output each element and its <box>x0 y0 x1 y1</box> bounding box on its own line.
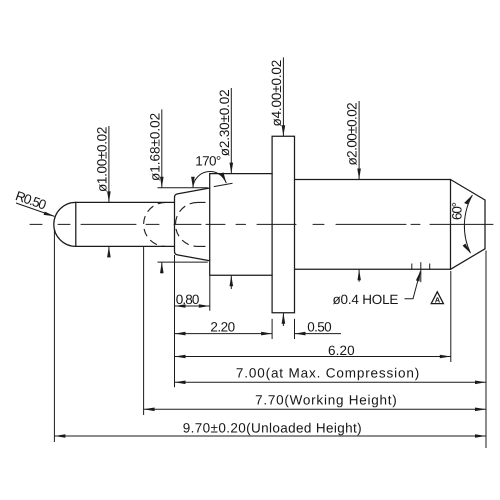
taper angle extension line <box>214 183 233 186</box>
chamfer top <box>451 180 486 201</box>
svg-text:0.50: 0.50 <box>307 320 332 335</box>
arrowhead 7.70 left <box>144 408 155 412</box>
extension line mouth face <box>174 255 176 387</box>
arrowhead ø2.30 down <box>230 163 234 174</box>
arrowhead 60 bottom <box>463 244 471 254</box>
svg-text:ø2.00±0.02: ø2.00±0.02 <box>345 102 360 166</box>
arrowhead 9.70 right <box>475 434 486 438</box>
hole leader <box>405 272 421 299</box>
arrowhead ø1.00 up <box>107 246 111 257</box>
body top <box>295 179 451 181</box>
dim leader line ø1.00 <box>108 126 110 202</box>
hole tick right <box>429 264 431 270</box>
arrowhead 60 top <box>464 195 473 205</box>
dim arrow tail ø1.68 bottom <box>161 262 163 274</box>
dim leader line ø1.68 <box>161 109 163 187</box>
svg-text:A: A <box>435 296 441 305</box>
arrowhead 0.50 left-pointing <box>295 332 306 336</box>
170 degree arc <box>193 172 226 188</box>
revision triangle <box>431 292 443 304</box>
arrowhead hole leader <box>416 271 421 282</box>
dim line 0.50 <box>295 333 342 335</box>
arrowhead 9.70 left <box>54 434 65 438</box>
arrowhead 2.20 right <box>261 332 272 336</box>
arrowhead 7.70 right <box>475 408 486 412</box>
arrowhead 6.20 left <box>175 355 186 359</box>
arrowhead ø2.00 up <box>358 269 361 280</box>
phantom shaft stub top <box>198 201 210 203</box>
svg-text:60°: 60° <box>450 202 465 221</box>
arrowhead 2.20 left <box>175 332 186 336</box>
svg-text:R0.50: R0.50 <box>14 188 49 213</box>
extension line right end <box>485 251 487 449</box>
arrowhead ø2.00 down <box>357 169 361 180</box>
body right end <box>484 200 486 249</box>
svg-text:ø4.00±0.02: ø4.00±0.02 <box>269 59 284 126</box>
svg-text:7.70(Working Height): 7.70(Working Height) <box>255 393 397 408</box>
phantom tip arc working height <box>144 202 166 246</box>
dim leader line ø4.00 <box>282 57 284 136</box>
dim line 9.70 <box>54 435 486 437</box>
extension line barrel edge bottom <box>209 276 211 311</box>
dim arrow tail ø2.00 bottom <box>358 269 360 281</box>
barrel mouth face and taper <box>175 188 210 261</box>
svg-text:9.70±0.20(Unloaded Height): 9.70±0.20(Unloaded Height) <box>183 421 362 436</box>
dim line 6.20 <box>175 356 451 358</box>
phantom tip arc max compression <box>176 202 198 246</box>
flange ø4.00 rectangle <box>272 136 294 313</box>
extension line ø1.68 bottom <box>158 261 208 263</box>
arrowhead 7.00 right <box>475 381 486 385</box>
arrowhead 0.80 left <box>175 304 186 308</box>
chamfer bottom <box>451 249 486 269</box>
R0.50 leader <box>16 203 54 216</box>
svg-text:ø1.68±0.02: ø1.68±0.02 <box>147 113 162 182</box>
barrel bottom <box>210 274 272 276</box>
arrowhead ø1.00 down <box>107 191 111 202</box>
svg-text:0.80: 0.80 <box>176 292 200 307</box>
svg-text:6.20: 6.20 <box>328 343 355 358</box>
svg-text:7.00(at Max. Compression): 7.00(at Max. Compression) <box>236 366 420 381</box>
dim line 0.80 <box>175 305 210 307</box>
arrowhead 170 left <box>191 177 195 188</box>
dim arrow tail ø2.30 bottom <box>230 275 232 289</box>
svg-text:ø2.30±0.02: ø2.30±0.02 <box>217 89 232 156</box>
dim arrow tail ø1.00 bottom <box>108 246 110 257</box>
arrowhead 170 right <box>220 172 226 183</box>
extension line working height tip <box>143 247 145 415</box>
60 degree arc <box>464 195 472 253</box>
dim leader line ø2.30 <box>230 88 232 174</box>
plunger tip cap R0.50 <box>54 202 76 246</box>
phantom shaft stub bottom <box>198 245 210 247</box>
barrel left edge <box>209 174 211 276</box>
dim leader line ø2.00 <box>358 101 360 180</box>
dim line 7.70 <box>144 408 486 410</box>
extension line ø1.68 top <box>158 187 208 189</box>
extension line flange left bottom <box>271 319 273 339</box>
arrowhead ø4.00 down <box>282 125 286 136</box>
chamfer start edge <box>450 180 452 270</box>
dim arrow tail ø4.00 bottom <box>282 313 284 326</box>
arrowhead ø2.30 up <box>230 275 234 286</box>
svg-text:ø0.4 HOLE: ø0.4 HOLE <box>333 292 399 307</box>
arrowhead 0.80 right <box>199 304 210 308</box>
arrowhead ø1.68 up <box>160 262 164 273</box>
extension line flange right bottom <box>294 319 296 339</box>
barrel top <box>210 173 272 175</box>
hole tick left <box>411 264 413 270</box>
dim line 7.00 <box>175 381 487 383</box>
tip cap junction line <box>75 202 77 246</box>
extension line chamfer start bottom <box>450 271 452 362</box>
plunger shaft top <box>76 201 175 203</box>
arrowhead 7.00 left <box>175 381 186 385</box>
dim line 2.20 <box>175 333 273 335</box>
plunger shaft bottom <box>76 245 175 247</box>
svg-text:2.20: 2.20 <box>210 320 235 335</box>
arrowhead ø1.68 down <box>160 177 164 188</box>
centerline <box>30 223 493 225</box>
extension line tip apex <box>53 230 55 442</box>
hole tick center <box>420 262 422 282</box>
arrowhead 6.20 right <box>440 355 451 359</box>
body bottom <box>295 268 451 270</box>
arrowhead R0.50 <box>44 212 55 217</box>
arrowhead ø4.00 up <box>282 313 286 324</box>
svg-text:ø1.00±0.02: ø1.00±0.02 <box>95 126 110 192</box>
